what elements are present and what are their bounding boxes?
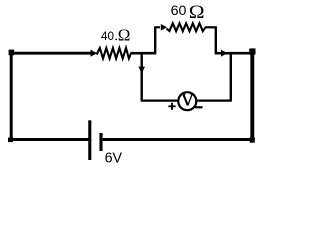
svg-text:60: 60 xyxy=(171,3,187,19)
svg-text:40: 40 xyxy=(101,30,115,43)
svg-text:6V: 6V xyxy=(105,150,123,166)
svg-text:Ω: Ω xyxy=(118,26,131,45)
svg-text:Ω: Ω xyxy=(189,2,205,23)
